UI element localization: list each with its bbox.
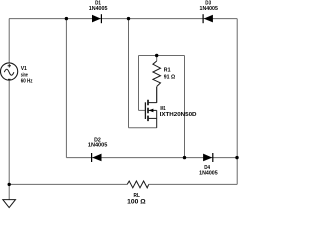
- wire main vertical from top junction: [128, 19, 130, 128]
- wire top: [9, 18, 237, 20]
- transistor M1 source/body tie: [156, 110, 158, 127]
- transistor M1 drain lead: [149, 87, 157, 103]
- wire bottom left of RL: [9, 183, 127, 185]
- junction R1 top dot: [155, 54, 158, 57]
- svg-text:1N4005: 1N4005: [200, 6, 218, 12]
- junction node D dot: [235, 156, 238, 159]
- wire loop top: [139, 55, 185, 57]
- transistor M1 channel segments: [147, 100, 149, 121]
- resistor RL zigzag: [127, 181, 149, 188]
- diode D4 triangle: [203, 154, 212, 162]
- transistor M1 body lead: [149, 109, 157, 111]
- junction node A dot: [65, 17, 68, 20]
- svg-text:V1: V1: [21, 66, 27, 72]
- svg-text:M1: M1: [160, 106, 165, 112]
- voltage source V1 circle: [1, 63, 18, 80]
- diode D1 cathode bar: [100, 14, 102, 23]
- transistor M1 source lead: [149, 117, 157, 119]
- wire loop right down to middle: [184, 56, 186, 158]
- diode D3 cathode bar: [202, 14, 204, 23]
- V1 plus sign: [8, 64, 11, 67]
- svg-text:IXTH20N50D: IXTH20N50D: [160, 112, 197, 118]
- svg-text:100 Ω: 100 Ω: [127, 198, 145, 205]
- transistor M1 gate bar: [144, 102, 146, 119]
- junction node B dot: [127, 17, 130, 20]
- svg-text:91 Ω: 91 Ω: [164, 74, 175, 80]
- wire R1 top lead: [156, 56, 158, 62]
- svg-text:sine: sine: [21, 72, 28, 78]
- V1 minus sign: [8, 78, 11, 80]
- wire right: [236, 19, 238, 185]
- junction ground dot: [8, 183, 11, 186]
- wire middle (D2/D4 row): [66, 157, 237, 159]
- wire left lower (from V1): [8, 80, 10, 184]
- svg-text:60 Hz: 60 Hz: [21, 79, 33, 85]
- diode D2 triangle: [92, 154, 101, 162]
- ground lead: [8, 184, 10, 199]
- diode D4 cathode bar: [212, 153, 214, 162]
- wire vertical node A to middle: [65, 19, 67, 158]
- wire sub-circuit bottom: [129, 127, 157, 129]
- V1 sine squiggle: [4, 69, 14, 75]
- ground triangle: [3, 200, 16, 208]
- svg-text:1N4005: 1N4005: [88, 142, 108, 148]
- wire loop left (gate branch): [138, 56, 140, 111]
- svg-text:1N4005: 1N4005: [89, 6, 108, 12]
- wire left upper (to V1): [8, 19, 10, 63]
- diode D3 triangle: [204, 15, 213, 23]
- svg-text:R1: R1: [164, 68, 171, 74]
- transistor M1 body arrow: [149, 109, 154, 113]
- wire gate lead: [139, 109, 146, 111]
- svg-text:1N4005: 1N4005: [199, 171, 218, 177]
- wire R1 bottom lead to drain: [156, 87, 158, 103]
- wire bottom right of RL: [149, 183, 238, 185]
- junction node C dot: [183, 156, 186, 159]
- diode D1 triangle: [92, 15, 101, 23]
- diode D2 cathode bar: [91, 153, 93, 162]
- resistor R1 zigzag: [153, 61, 161, 87]
